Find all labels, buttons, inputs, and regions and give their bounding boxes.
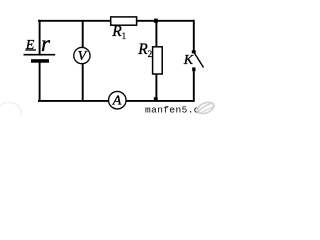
underline of E — [25, 49, 36, 51]
svg-text:K: K — [183, 53, 194, 68]
battery E,r short thick plate — [31, 59, 49, 63]
svg-text:R2: R2 — [137, 41, 152, 59]
wire top rail — [38, 20, 195, 22]
ammeter A circle — [109, 91, 127, 109]
switch K blade — [194, 53, 203, 68]
svg-text:A: A — [112, 93, 122, 108]
battery E,r long plate — [24, 54, 56, 56]
wire left (battery top segment) — [39, 20, 41, 55]
voltmeter U-V circle — [74, 47, 90, 63]
resistor R2 box — [153, 47, 163, 74]
wire right upper (to switch) — [193, 20, 195, 52]
node junction top (R2 to top rail) — [154, 19, 158, 23]
wire bottom rail — [38, 100, 195, 102]
svg-text:manfen5.c: manfen5.c — [145, 105, 200, 116]
wire R2 branch — [155, 20, 157, 101]
svg-text:V: V — [78, 49, 88, 64]
svg-text:r: r — [41, 31, 51, 56]
faint corner watermark swirl — [0, 103, 21, 122]
node junction bottom (R2 to bottom rail) — [154, 97, 158, 100]
wire voltmeter branch — [82, 20, 84, 101]
switch K bottom contact — [192, 67, 195, 71]
wire left (battery bottom segment) — [39, 62, 41, 102]
switch K top contact — [192, 50, 196, 53]
wire right lower (from switch) — [193, 70, 195, 102]
resistor R1 box — [111, 17, 137, 25]
